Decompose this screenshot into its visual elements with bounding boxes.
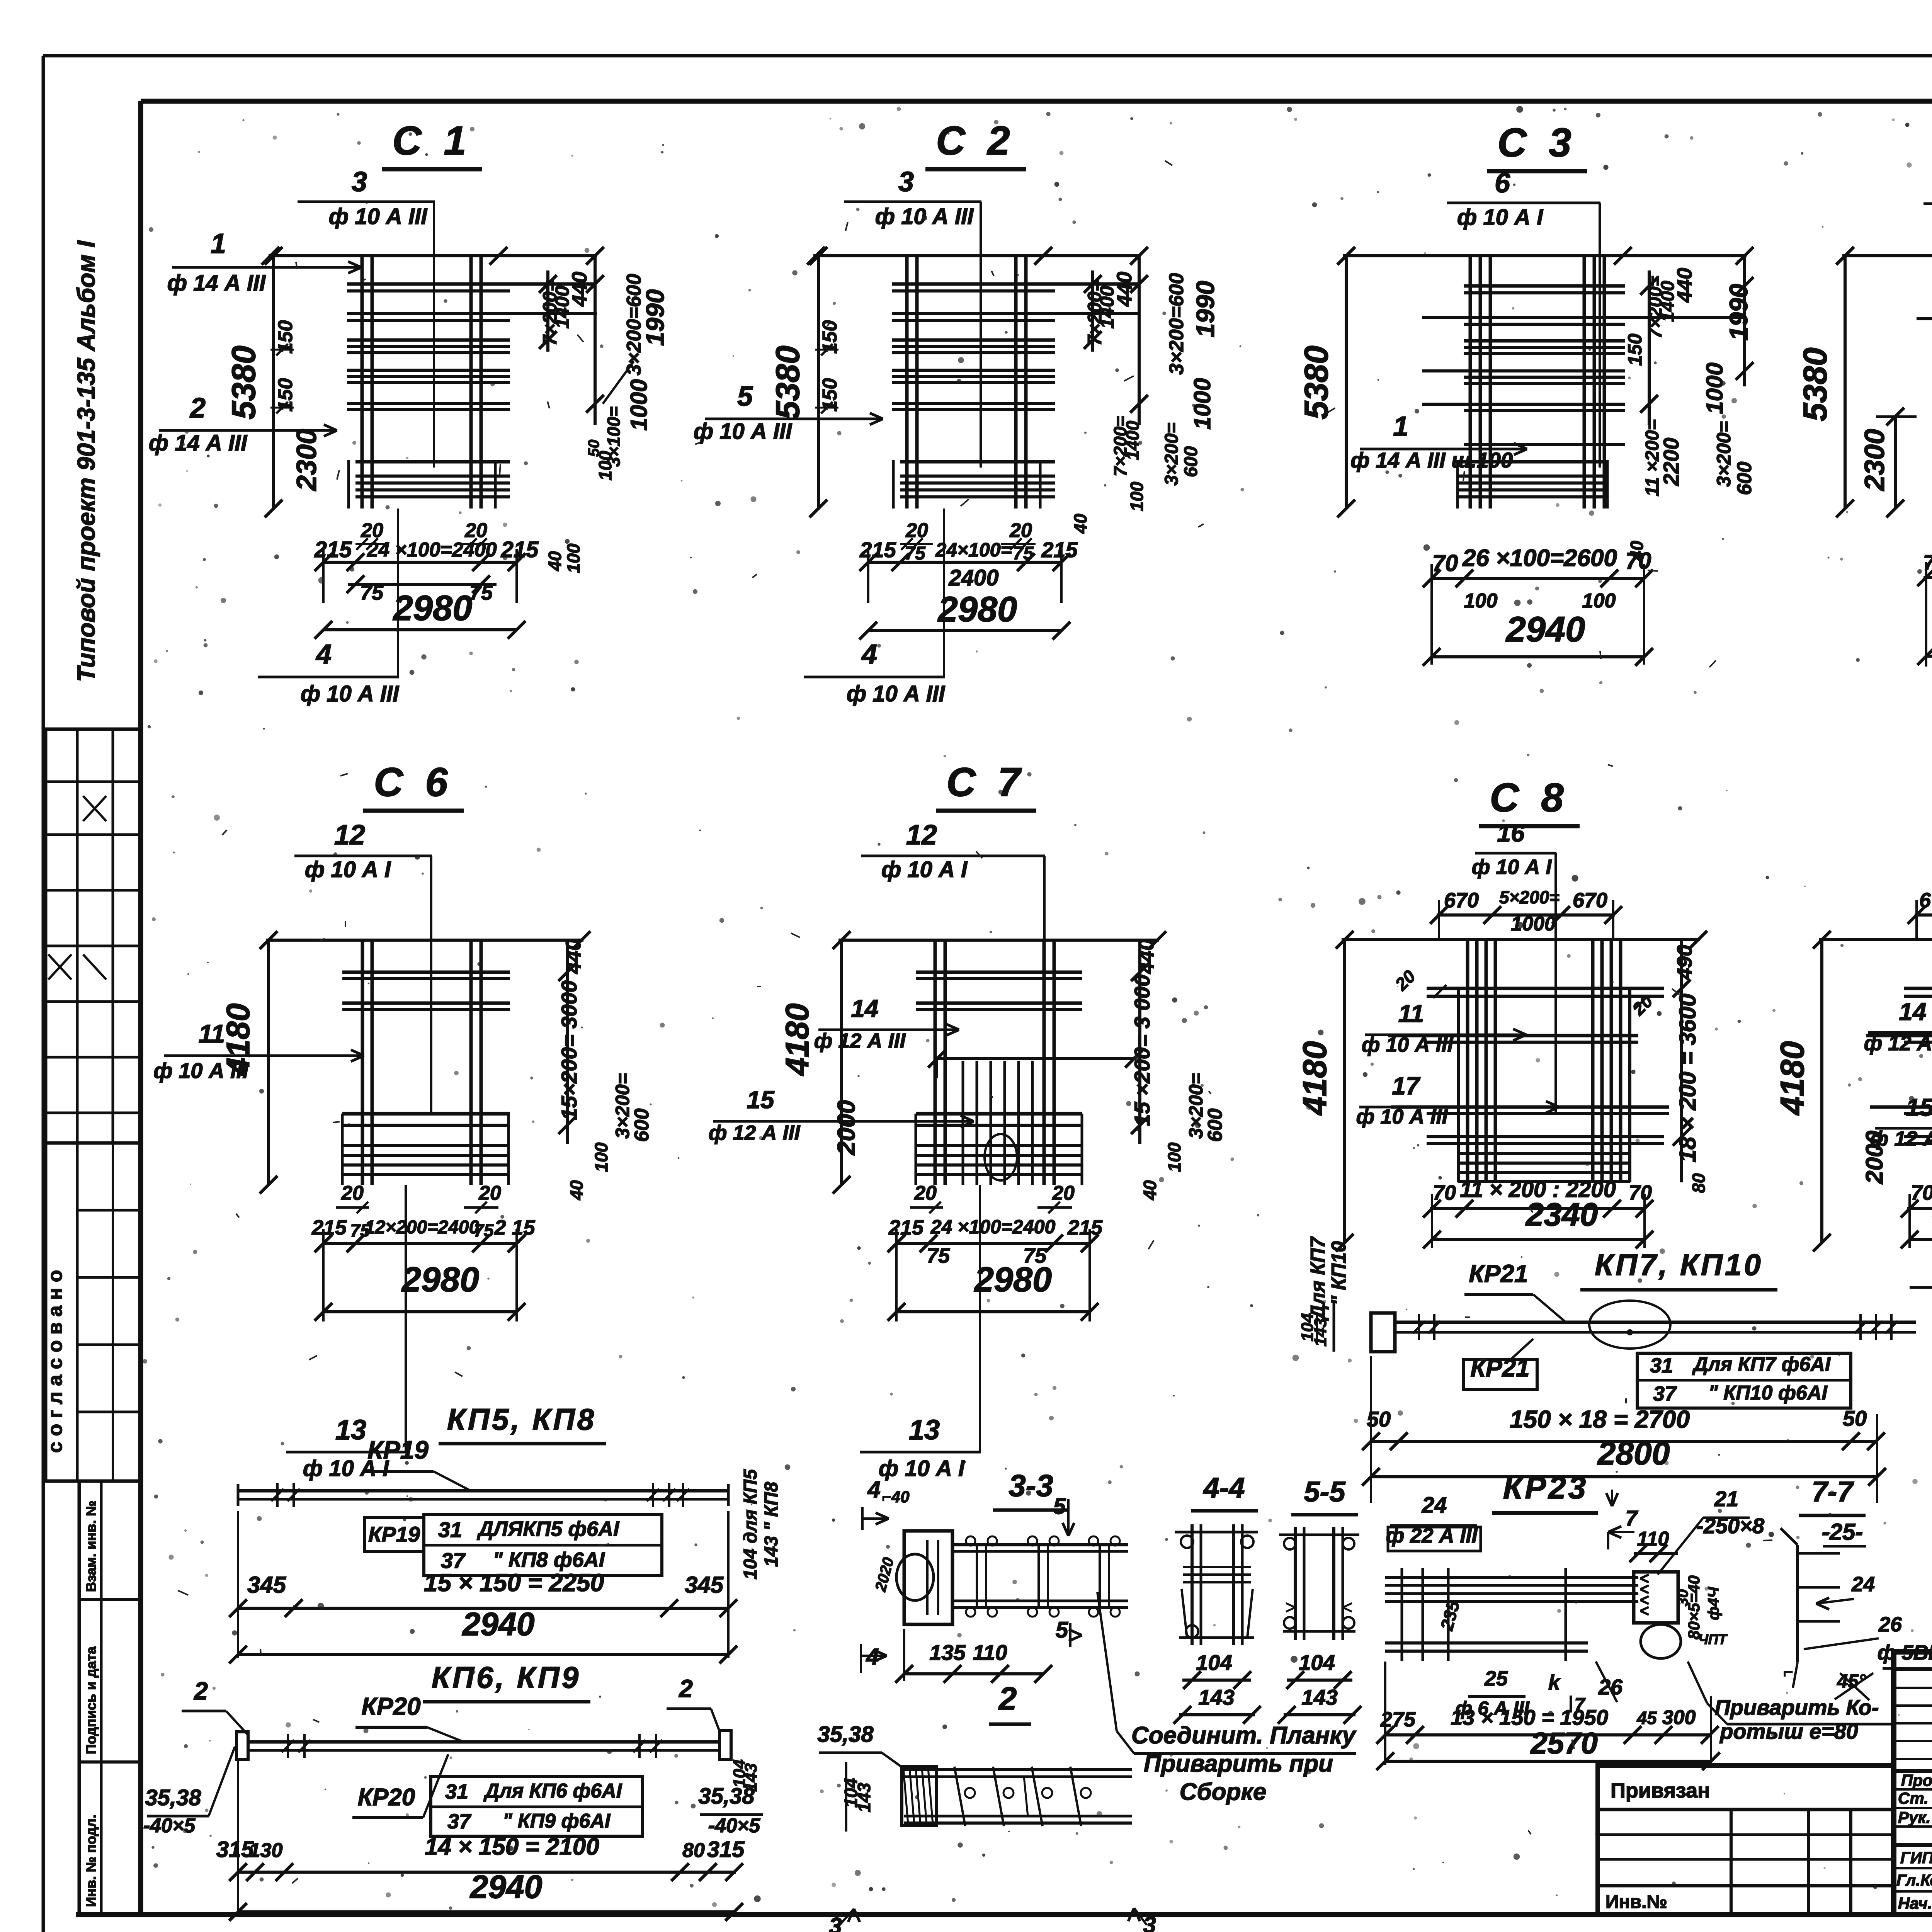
sidebar attachment table — [79, 1481, 141, 1915]
svg-text:ЧПТ: ЧПТ — [1698, 1631, 1728, 1647]
svg-text:-250×8: -250×8 — [1696, 1514, 1765, 1538]
svg-text:1: 1 — [211, 228, 226, 259]
svg-text:11: 11 — [1398, 1000, 1424, 1027]
svg-text:3: 3 — [829, 1913, 842, 1932]
svg-text:" КП9 ф6АІ: " КП9 ф6АІ — [503, 1810, 611, 1832]
svg-text:130: 130 — [249, 1839, 283, 1862]
svg-text:40: 40 — [1070, 514, 1090, 534]
svg-text:Привязан: Привязан — [1611, 1779, 1710, 1802]
KP7 parts table — [1637, 1353, 1851, 1408]
svg-text:2300: 2300 — [291, 429, 322, 492]
svg-text:75: 75 — [469, 581, 493, 604]
svg-text:104: 104 — [1196, 1650, 1232, 1675]
C7 mesh bottom dense bars — [916, 1144, 1082, 1147]
svg-text:1990: 1990 — [641, 289, 669, 346]
svg-text:40: 40 — [566, 1180, 587, 1201]
C7 left dimension 4180 — [840, 940, 843, 1185]
svg-text:300: 300 — [1662, 1706, 1696, 1729]
svg-text:КП7, КП10: КП7, КП10 — [1595, 1248, 1763, 1282]
svg-text:2570: 2570 — [1530, 1726, 1598, 1760]
svg-text:2000: 2000 — [832, 1100, 860, 1155]
svg-text:Инв.№: Инв.№ — [1605, 1892, 1667, 1912]
svg-text:40: 40 — [545, 551, 565, 571]
svg-text:3×200=: 3×200= — [1185, 1073, 1207, 1139]
svg-text:5380: 5380 — [1797, 347, 1834, 421]
C3 bottom dimension 70 2600 70 — [1432, 577, 1644, 580]
svg-text:с о г л а с о в а н о: с о г л а с о в а н о — [44, 1270, 66, 1453]
svg-text:31: 31 — [445, 1780, 468, 1803]
C7 bottom dims — [896, 1242, 1090, 1245]
C8 mesh horizontal bars — [1427, 987, 1664, 990]
KR23 weld circle — [1641, 1624, 1681, 1658]
svg-text:2: 2 — [679, 1675, 693, 1702]
svg-text:600: 600 — [631, 1109, 653, 1142]
svg-text:24 ×100=2400: 24 ×100=2400 — [367, 539, 497, 561]
svg-text:Гл.Констр: Гл.Констр — [1896, 1871, 1932, 1889]
svg-text:20: 20 — [905, 519, 928, 542]
svg-text:315: 315 — [707, 1837, 745, 1862]
svg-text:143: 143 — [1311, 1318, 1330, 1346]
svg-text:80×5=40: 80×5=40 — [1685, 1575, 1703, 1639]
svg-text:КР19: КР19 — [368, 1522, 420, 1546]
svg-text:104 для КП5: 104 для КП5 — [740, 1469, 761, 1580]
svg-text:Инв. № подл.: Инв. № подл. — [83, 1815, 99, 1907]
sidebar stamp table upper — [46, 729, 141, 1143]
svg-text:2980: 2980 — [401, 1260, 479, 1299]
svg-text:15 ×200= 3 000: 15 ×200= 3 000 — [1130, 975, 1154, 1126]
KR23 beam bars — [1385, 1576, 1638, 1579]
svg-text:13: 13 — [335, 1415, 366, 1446]
svg-text:2940: 2940 — [462, 1606, 535, 1642]
svg-text:Соединит. Планку: Соединит. Планку — [1131, 1722, 1357, 1749]
svg-text:600: 600 — [1733, 462, 1756, 495]
3-3 left end block — [904, 1531, 952, 1624]
svg-text:⌐40: ⌐40 — [882, 1488, 909, 1506]
svg-text:2800: 2800 — [1597, 1435, 1670, 1471]
svg-text:ф4Ч: ф4Ч — [1705, 1587, 1722, 1620]
svg-text:50: 50 — [1843, 1406, 1867, 1430]
title block staff rows — [1894, 1788, 1932, 1791]
svg-text:215: 215 — [314, 537, 352, 562]
svg-text:6: 6 — [1495, 168, 1510, 199]
svg-text:3×200=600: 3×200=600 — [1165, 273, 1188, 374]
svg-text:670: 670 — [1573, 889, 1607, 912]
3-3 beam rails — [952, 1543, 1128, 1546]
svg-text:5-5: 5-5 — [1304, 1476, 1346, 1508]
svg-text:37: 37 — [447, 1810, 472, 1833]
svg-text:13: 13 — [909, 1415, 940, 1446]
svg-text:3×200=: 3×200= — [612, 1073, 633, 1139]
title block left small rows — [1894, 1669, 1932, 1671]
svg-text:Ст. инж.: Ст. инж. — [1898, 1789, 1932, 1807]
svg-text:143: 143 — [854, 1782, 874, 1812]
svg-text:5380: 5380 — [1298, 345, 1335, 419]
svg-text:12×200=2400: 12×200=2400 — [365, 1217, 480, 1238]
svg-text:143 " КП8: 143 " КП8 — [761, 1482, 782, 1567]
C8 left dimension 4180 — [1343, 940, 1346, 1243]
svg-text:C 8: C 8 — [1490, 775, 1569, 820]
svg-text:18 × 200 = 3600: 18 × 200 = 3600 — [1675, 993, 1701, 1162]
title block main frame — [1894, 1652, 1932, 1915]
svg-text:30: 30 — [1674, 1589, 1691, 1607]
svg-text:2200: 2200 — [1659, 438, 1683, 486]
svg-text:150: 150 — [1624, 333, 1646, 366]
svg-text:ф 10 А III: ф 10 А III — [847, 681, 946, 706]
C2 top dimension line — [813, 254, 1141, 257]
sidebar X marks — [83, 796, 106, 821]
svg-text:ф 10 А III: ф 10 А III — [329, 204, 428, 229]
C8 top dimension line — [1342, 938, 1700, 941]
svg-text:2940: 2940 — [1505, 610, 1585, 649]
svg-text:490: 490 — [1673, 945, 1696, 980]
svg-text:ГИП: ГИП — [1900, 1849, 1932, 1867]
KP7 weld oval — [1589, 1301, 1670, 1349]
svg-text:2: 2 — [194, 1677, 208, 1705]
svg-text:15×200= 3000: 15×200= 3000 — [557, 980, 581, 1120]
svg-text:75: 75 — [927, 1244, 950, 1267]
svg-text:ф 10 А I: ф 10 А I — [1457, 205, 1544, 230]
svg-text:C 6: C 6 — [374, 760, 453, 805]
C7 inner top dim — [934, 1057, 1136, 1060]
svg-text:КР23: КР23 — [1503, 1470, 1588, 1505]
svg-text:16: 16 — [1497, 819, 1525, 847]
svg-text:12: 12 — [906, 820, 937, 850]
svg-text:26 ×100=2600: 26 ×100=2600 — [1462, 545, 1617, 571]
svg-text:2400: 2400 — [948, 565, 998, 590]
svg-text:КР20: КР20 — [361, 1692, 420, 1720]
svg-text:КР20: КР20 — [358, 1784, 415, 1811]
C1 bottom dimension row 75 75 — [348, 583, 497, 586]
svg-text:ф 12 А III: ф 12 А III — [1870, 1127, 1932, 1150]
svg-text:150 × 18 = 2700: 150 × 18 = 2700 — [1510, 1405, 1690, 1433]
svg-text:100: 100 — [1464, 590, 1498, 612]
2 left end block — [902, 1767, 937, 1825]
svg-text:26: 26 — [1598, 1675, 1623, 1699]
svg-text:24: 24 — [1422, 1493, 1447, 1518]
svg-text:Подпись и дата: Подпись и дата — [83, 1646, 99, 1754]
svg-text:70: 70 — [1911, 1181, 1932, 1204]
C6 mesh horizontal bars — [342, 971, 510, 974]
svg-text:4-4: 4-4 — [1203, 1472, 1245, 1504]
C6 left dimension 4180 — [267, 940, 270, 1185]
svg-text:50: 50 — [585, 440, 602, 457]
svg-text:1400: 1400 — [1122, 420, 1143, 460]
C7 anchor verticals — [962, 1061, 964, 1185]
svg-text:150: 150 — [274, 378, 297, 412]
sidebar stamp table soglasovano — [46, 1143, 141, 1481]
svg-text:k: k — [1548, 1671, 1561, 1694]
svg-text:70: 70 — [1626, 548, 1651, 574]
svg-text:3: 3 — [898, 167, 914, 197]
svg-text:45: 45 — [1636, 1708, 1657, 1728]
C3 left dimension 5380 — [1345, 256, 1348, 509]
svg-text:C 1: C 1 — [392, 118, 471, 163]
svg-text:70: 70 — [1923, 550, 1932, 575]
svg-text:143: 143 — [1301, 1685, 1337, 1709]
svg-text:2300: 2300 — [1859, 429, 1890, 492]
C6 mesh bottom dense bars — [342, 1144, 509, 1147]
KP5 parts table — [364, 1517, 424, 1551]
svg-text:2: 2 — [189, 393, 206, 423]
svg-text:-40×5: -40×5 — [708, 1815, 761, 1837]
svg-text:4: 4 — [315, 639, 332, 670]
3-3 cross ties — [976, 1545, 978, 1607]
svg-text:Сборке: Сборке — [1180, 1779, 1267, 1805]
svg-text:100: 100 — [1582, 590, 1616, 612]
svg-text:ф 12 А III: ф 12 А III — [814, 1029, 906, 1053]
C3 mesh vertical bars — [1469, 254, 1472, 509]
svg-text:215: 215 — [888, 1216, 924, 1239]
svg-text:5: 5 — [1056, 1617, 1068, 1643]
svg-text:70: 70 — [1432, 550, 1458, 576]
svg-text:600: 600 — [1204, 1109, 1226, 1142]
svg-text:ротыш е=80: ротыш е=80 — [1719, 1719, 1858, 1743]
7-7 drawing — [1796, 1545, 1799, 1662]
svg-text:70: 70 — [1629, 1181, 1652, 1204]
C9 left dimension 4180 — [1820, 940, 1823, 1243]
svg-text:70: 70 — [1433, 1181, 1456, 1204]
svg-text:7: 7 — [1625, 1506, 1638, 1530]
svg-text:80: 80 — [1689, 1173, 1709, 1193]
5-5 drawing — [1294, 1527, 1297, 1640]
KP5 beam bars — [238, 1489, 728, 1493]
svg-text:C 3: C 3 — [1497, 120, 1577, 165]
svg-text:2 15: 2 15 — [494, 1216, 535, 1239]
svg-text:" КП8 ф6АІ: " КП8 ф6АІ — [493, 1548, 605, 1571]
svg-text:2980: 2980 — [937, 590, 1017, 629]
svg-text:215: 215 — [859, 537, 896, 562]
KR23 verticals — [1401, 1568, 1403, 1661]
svg-text:1000: 1000 — [626, 379, 652, 430]
C7 weld circle — [985, 1134, 1017, 1180]
C1 left dimension 5380 — [272, 256, 275, 509]
C4 top dimension line — [1842, 254, 1932, 257]
svg-text:35,38: 35,38 — [817, 1722, 874, 1747]
svg-text:75: 75 — [1013, 543, 1034, 564]
svg-text:1000: 1000 — [1702, 362, 1728, 414]
svg-text:1: 1 — [1393, 411, 1408, 442]
svg-text:1990: 1990 — [1191, 281, 1219, 337]
C2 bottom dimension row — [868, 561, 1061, 564]
svg-text:ф 10 А III: ф 10 А III — [153, 1058, 249, 1083]
2 cross braces — [954, 1767, 965, 1826]
svg-text:ДЛЯКП5 ф6АІ: ДЛЯКП5 ф6АІ — [477, 1517, 619, 1541]
svg-text:⌐: ⌐ — [1783, 1663, 1793, 1682]
svg-text:75: 75 — [360, 581, 384, 604]
C3 top dimension line — [1343, 254, 1747, 257]
svg-text:37: 37 — [1653, 1382, 1677, 1405]
svg-text:КР21: КР21 — [1469, 1260, 1528, 1287]
C1 top dimension line — [269, 254, 597, 257]
svg-text:2980: 2980 — [974, 1260, 1052, 1299]
C6 top dimension line — [266, 939, 583, 942]
svg-text:75: 75 — [905, 543, 926, 564]
KP6 end plates — [236, 1732, 248, 1760]
C3 mesh bottom anchorage block — [1458, 460, 1607, 464]
KP6 beam bars — [247, 1740, 719, 1744]
C7 mesh vertical bars — [934, 939, 937, 1185]
C1 mesh vertical bars — [361, 254, 364, 509]
C2 mesh bottom anchorage block — [900, 460, 1055, 464]
outer border — [43, 54, 1932, 58]
C8 bottom dims — [1430, 1207, 1646, 1210]
svg-text:ф 10 А I: ф 10 А I — [881, 857, 968, 882]
svg-text:Типовой проект 901-3-135 Ал: Типовой проект 901-3-135 Альбом I — [72, 240, 100, 682]
svg-text:17: 17 — [1392, 1072, 1421, 1100]
svg-text:440: 440 — [562, 939, 585, 974]
svg-text:80: 80 — [682, 1839, 705, 1862]
svg-text:20: 20 — [1052, 1182, 1075, 1204]
svg-text:Взам. инв. №: Взам. инв. № — [83, 1501, 99, 1592]
C1 mesh bottom anchorage block — [355, 460, 510, 464]
svg-text:25: 25 — [1484, 1667, 1508, 1690]
svg-text:150: 150 — [274, 320, 297, 354]
svg-text:5380: 5380 — [225, 345, 262, 419]
svg-text:Приварить Ко-: Приварить Ко- — [1714, 1695, 1879, 1719]
svg-text:35,38: 35,38 — [145, 1785, 201, 1810]
svg-text:21: 21 — [1714, 1486, 1738, 1511]
svg-text:ф 14 А III: ф 14 А III — [149, 430, 248, 456]
C9 bottom dims — [1907, 1207, 1932, 1210]
svg-text:14: 14 — [851, 995, 878, 1022]
KR23 right end plate — [1634, 1572, 1678, 1623]
svg-text:3-3: 3-3 — [1009, 1468, 1053, 1503]
KP6 parts table — [431, 1777, 643, 1836]
svg-text:31: 31 — [1650, 1354, 1673, 1377]
inner frame — [141, 99, 1932, 104]
C8 mesh bottom dense bars — [1458, 1152, 1630, 1155]
svg-text:5: 5 — [1053, 1494, 1066, 1519]
svg-text:C 2: C 2 — [936, 118, 1015, 163]
svg-text:31: 31 — [438, 1517, 462, 1542]
svg-text:ф 14 А III: ф 14 А III — [167, 270, 266, 296]
svg-text:40: 40 — [1140, 1180, 1160, 1201]
svg-text:5×200=: 5×200= — [1499, 887, 1560, 907]
svg-text:150: 150 — [819, 378, 841, 412]
svg-text:12: 12 — [334, 820, 365, 850]
svg-text:100: 100 — [591, 1142, 611, 1172]
svg-text:315: 315 — [216, 1837, 254, 1862]
svg-text:КР19: КР19 — [367, 1435, 429, 1464]
svg-text:КП6, КП9: КП6, КП9 — [432, 1660, 581, 1694]
svg-text:4180: 4180 — [1296, 1041, 1333, 1116]
svg-text:143: 143 — [1198, 1685, 1234, 1709]
KP7 left end plate — [1371, 1313, 1395, 1352]
C7 mesh horizontal bars — [916, 971, 1082, 974]
svg-text:440: 440 — [1673, 268, 1696, 303]
svg-text:110: 110 — [973, 1640, 1007, 1665]
svg-text:4: 4 — [861, 639, 877, 670]
svg-text:" КП10: " КП10 — [1328, 1241, 1350, 1305]
C6 bottom dims — [323, 1242, 517, 1245]
svg-text:2340: 2340 — [1525, 1196, 1598, 1233]
2 beam rails — [904, 1768, 1132, 1771]
svg-text:ф 10 А III: ф 10 А III — [301, 681, 400, 706]
svg-text:-40×5: -40×5 — [143, 1815, 196, 1837]
svg-text:Проверил: Проверил — [1901, 1771, 1932, 1789]
C1 leader from callout 3 — [433, 202, 435, 468]
svg-text:4180: 4180 — [779, 1003, 815, 1077]
svg-text:5380: 5380 — [769, 345, 806, 419]
svg-text:215: 215 — [1067, 1216, 1103, 1239]
svg-text:3: 3 — [352, 167, 367, 197]
svg-text:215: 215 — [1041, 537, 1078, 562]
C2 mesh vertical bars — [905, 254, 909, 509]
svg-text:2940: 2940 — [469, 1869, 543, 1905]
svg-text:4180: 4180 — [1774, 1041, 1811, 1116]
C1 bottom dimension row 215 2400 215 — [323, 561, 517, 564]
svg-text:2: 2 — [998, 1680, 1017, 1717]
svg-text:КП5, КП8: КП5, КП8 — [447, 1402, 596, 1436]
svg-text:C 7: C 7 — [946, 760, 1026, 805]
4-4 drawing — [1190, 1524, 1194, 1645]
C4 left dimension 5380 — [1844, 256, 1847, 509]
svg-text:100: 100 — [563, 543, 583, 573]
svg-text:Нач. отд.: Нач. отд. — [1898, 1894, 1932, 1912]
svg-text:ф 10 А III: ф 10 А III — [694, 419, 793, 444]
svg-text:15: 15 — [747, 1086, 775, 1114]
svg-text:20: 20 — [341, 1182, 364, 1204]
svg-text:ф 12 А III: ф 12 А III — [709, 1121, 801, 1145]
C9 mesh horizontal bars — [1904, 987, 1932, 990]
C2 mesh horizontal bars — [892, 282, 1140, 286]
svg-text:24×100=: 24×100= — [935, 539, 1012, 561]
svg-text:Для КП6 ф6АІ: Для КП6 ф6АІ — [483, 1780, 622, 1802]
svg-text:215: 215 — [311, 1216, 347, 1239]
svg-text:600: 600 — [1181, 446, 1201, 477]
svg-text:14: 14 — [1899, 998, 1926, 1026]
svg-text:20: 20 — [914, 1182, 937, 1204]
svg-text:100: 100 — [1127, 481, 1147, 511]
C3 mesh horizontal bars — [1464, 284, 1625, 288]
svg-text:ф 10 А I: ф 10 А I — [1472, 855, 1552, 879]
svg-text:100: 100 — [1164, 1142, 1184, 1172]
C1 right small dim lines — [546, 270, 549, 352]
svg-text:345: 345 — [247, 1572, 287, 1598]
svg-text:15 × 150 = 2250: 15 × 150 = 2250 — [424, 1569, 604, 1597]
C9 top dimension line — [1819, 938, 1932, 941]
svg-text:104: 104 — [1299, 1650, 1335, 1675]
C1 mesh horizontal bars — [347, 282, 595, 286]
svg-text:26: 26 — [1878, 1613, 1902, 1636]
svg-text:Рук. гр.: Рук. гр. — [1898, 1808, 1932, 1827]
svg-text:3×200=: 3×200= — [1162, 423, 1182, 486]
svg-text:20: 20 — [478, 1182, 501, 1204]
C2 left dimension 5380 — [817, 256, 820, 509]
svg-text:ф 10 А I: ф 10 А I — [879, 1456, 965, 1481]
svg-text:11: 11 — [199, 1019, 225, 1048]
svg-text:3×200=: 3×200= — [1713, 421, 1735, 487]
svg-text:75: 75 — [474, 1220, 494, 1240]
svg-text:5: 5 — [737, 381, 753, 412]
svg-text:135: 135 — [929, 1640, 966, 1665]
svg-text:150: 150 — [819, 320, 841, 354]
svg-text:2980: 2980 — [393, 588, 473, 628]
svg-text:24: 24 — [1851, 1573, 1875, 1596]
C7 top dimension line — [838, 939, 1159, 942]
svg-text:ф 10 А I: ф 10 А I — [305, 857, 391, 882]
svg-text:-25-: -25- — [1822, 1519, 1863, 1545]
title block pryvyazan table — [1598, 1765, 1894, 1915]
KP7 beam bars — [1395, 1321, 1916, 1324]
svg-text:24 ×100=2400: 24 ×100=2400 — [930, 1216, 1056, 1238]
C6 mesh vertical bars — [361, 939, 364, 1185]
svg-text:345: 345 — [685, 1572, 724, 1598]
svg-text:143: 143 — [742, 1763, 760, 1791]
svg-text:4: 4 — [867, 1476, 880, 1502]
svg-text:" КП10 ф6АІ: " КП10 ф6АІ — [1708, 1382, 1828, 1404]
svg-text:670: 670 — [1444, 889, 1479, 912]
